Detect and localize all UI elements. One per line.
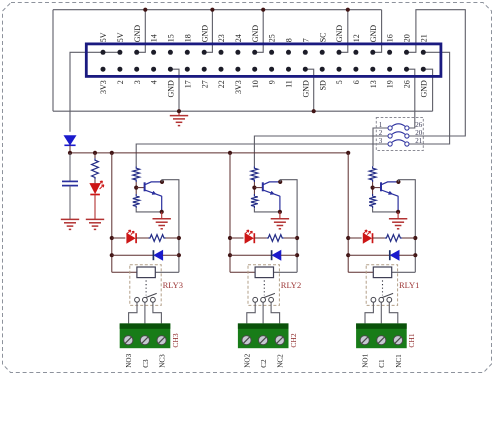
jumper J2 pin 1 <box>388 126 392 130</box>
relay RLY1 coil <box>373 267 391 278</box>
relay RLY2 contact 1 <box>253 297 258 302</box>
wire diode row right channel 1 <box>399 254 415 256</box>
terminal block CH3 <box>120 323 171 348</box>
svg-text:7: 7 <box>301 38 310 42</box>
svg-text:RLY3: RLY3 <box>163 280 183 290</box>
wire collector net channel 1 <box>398 180 415 273</box>
svg-text:NO1: NO1 <box>362 353 370 367</box>
svg-text:26: 26 <box>415 121 423 129</box>
connector J1 bottom pin labels <box>99 80 428 98</box>
wire C1 to terminal <box>380 303 382 324</box>
relay RLY1 contact 2 <box>379 297 384 302</box>
ground at emitter Q3 <box>153 219 171 229</box>
resistor R2c LED series <box>267 235 284 242</box>
wire capacitor to ground <box>69 186 71 220</box>
connector J1 top pin row <box>101 50 426 55</box>
wire to LED D2 <box>230 237 244 239</box>
wire diode row left channel 1 <box>348 254 390 256</box>
wire to board ground <box>178 111 180 115</box>
svg-text:20: 20 <box>403 34 412 42</box>
svg-text:2: 2 <box>116 80 125 84</box>
transistor Q1 NPN <box>381 182 398 212</box>
junction emitter Q3 <box>160 210 164 214</box>
wire NC2 to terminal <box>271 303 280 324</box>
junction LED row left channel 3 <box>110 236 114 240</box>
svg-text:GND: GND <box>200 25 209 43</box>
capacitor C1 <box>62 181 78 185</box>
wire diode row right channel 2 <box>281 254 297 256</box>
svg-text:1: 1 <box>379 121 383 129</box>
wire GND pin39 dropper <box>423 69 432 111</box>
junction VCC rail left <box>68 151 72 155</box>
svg-text:15: 15 <box>167 34 176 42</box>
junction VCC tap channel 3 <box>110 151 114 155</box>
svg-text:CH1: CH1 <box>407 333 416 347</box>
wire GPIO21 net <box>409 52 449 144</box>
svg-text:5: 5 <box>335 80 344 84</box>
svg-text:25: 25 <box>268 34 277 42</box>
junction emitter Q2 <box>278 210 282 214</box>
junction diode row left channel 1 <box>346 253 350 257</box>
svg-text:CH2: CH2 <box>289 333 298 347</box>
wire diode row left channel 3 <box>112 254 154 256</box>
terminal CH1 screw 2 <box>377 336 386 345</box>
ground at emitter Q2 <box>271 219 289 229</box>
junction VCC tap channel 1 <box>346 151 350 155</box>
wire base node channel 1 <box>372 182 374 194</box>
svg-text:11: 11 <box>285 80 294 88</box>
wire jumper row2 to Q2 base resistor <box>254 136 387 166</box>
wire rail to capacitor <box>69 153 71 181</box>
junction GND line pin25 <box>312 109 316 113</box>
svg-text:NO3: NO3 <box>125 353 133 367</box>
resistor R3b pulldown <box>133 194 140 208</box>
svg-text:2: 2 <box>379 129 383 137</box>
wire emitter to ground Q2 <box>279 212 281 219</box>
junction LED row right channel 1 <box>413 236 417 240</box>
wire emitter bottom Q2 <box>254 208 280 212</box>
relay RLY1 linkage <box>382 280 384 295</box>
wire diode row right channel 3 <box>163 254 179 256</box>
svg-text:NO2: NO2 <box>243 353 251 367</box>
wire LED to resistor R3c <box>136 237 148 239</box>
junction GND rail pin14 <box>210 8 214 12</box>
svg-text:12: 12 <box>352 34 361 42</box>
svg-text:21: 21 <box>415 137 423 145</box>
svg-text:9: 9 <box>268 80 277 84</box>
relay RLY3 lever <box>146 293 157 297</box>
svg-text:16: 16 <box>386 34 395 42</box>
ground at emitter Q1 <box>389 219 407 229</box>
wire to LED D1 <box>348 237 362 239</box>
terminal CH1 screw 3 <box>393 336 402 345</box>
diode D1f flyback RLY1 <box>391 251 399 260</box>
wire GND pin34 riser <box>339 10 348 53</box>
wire NC3 to terminal <box>153 303 162 324</box>
wire GND left side <box>52 10 54 112</box>
junction diode row left channel 2 <box>228 253 232 257</box>
wire VCC drop channel 3 <box>111 153 113 272</box>
relay RLY3 coil <box>137 267 155 278</box>
relay RLY1 outline <box>366 265 397 306</box>
relay RLY2 contact 2 <box>261 297 266 302</box>
wire to relay coil left RLY2 <box>230 271 255 273</box>
wire base node to Q1 <box>373 187 381 189</box>
diode D2f flyback RLY2 <box>273 251 281 260</box>
svg-text:4: 4 <box>150 80 159 84</box>
wire GPIO26 net <box>407 69 415 128</box>
wire GND pin6 riser <box>137 10 146 53</box>
jumper J2 pin 21 <box>405 142 409 146</box>
resistor R2b pulldown <box>251 194 258 208</box>
wire resistor to collector net channel 3 <box>166 237 179 239</box>
svg-text:20: 20 <box>415 129 423 137</box>
svg-text:NC2: NC2 <box>277 354 285 368</box>
wire VCC drop channel 1 <box>347 153 349 272</box>
wire C2 to terminal <box>262 303 264 324</box>
wire to relay coil left RLY3 <box>112 271 137 273</box>
junction collector Q1 <box>396 180 400 184</box>
svg-text:19: 19 <box>386 80 395 88</box>
junction diode row right channel 3 <box>177 253 181 257</box>
wire to relay coil left RLY1 <box>348 271 373 273</box>
jumper J2 pin 2 <box>388 134 392 138</box>
junction LED row left channel 2 <box>228 236 232 240</box>
diode D3f flyback RLY3 <box>154 251 162 260</box>
svg-text:23: 23 <box>217 34 226 42</box>
junction diode row right channel 1 <box>413 253 417 257</box>
svg-text:3: 3 <box>133 80 142 84</box>
svg-text:GND: GND <box>419 80 428 98</box>
terminal CH3 screw 3 <box>157 336 166 345</box>
wire NC1 to terminal <box>389 303 398 324</box>
svg-text:RLY2: RLY2 <box>281 280 301 290</box>
relay RLY3 contact 1 <box>135 297 140 302</box>
terminal block CH1 <box>356 323 407 348</box>
junction base node Q3 <box>134 186 138 190</box>
resistor R3a base <box>133 166 140 182</box>
svg-text:21: 21 <box>419 34 428 42</box>
wire NO3 to terminal <box>129 303 137 324</box>
LED D3 indicator <box>127 234 135 243</box>
wire collector net channel 2 <box>280 180 297 273</box>
relay RLY1 contact 3 <box>387 297 392 302</box>
svg-text:22: 22 <box>217 80 226 88</box>
svg-text:SD: SD <box>318 80 327 90</box>
wire 5V from pins 2-4 <box>70 52 120 132</box>
relay RLY3 linkage <box>145 280 147 295</box>
junction GND rail pin6 <box>143 8 147 12</box>
wire resistor to collector net channel 1 <box>402 237 415 239</box>
jumper J2 link arc 2-20 <box>392 132 405 135</box>
resistor R1a base <box>369 166 376 182</box>
wire emitter to ground Q1 <box>397 212 399 219</box>
wire resistor to collector net channel 2 <box>284 237 297 239</box>
svg-text:5V: 5V <box>116 32 125 42</box>
junction GND rail pin20 <box>261 8 265 12</box>
relay RLY2 coil <box>255 267 273 278</box>
resistor R4 power LED <box>92 158 99 179</box>
svg-text:3V3: 3V3 <box>234 80 243 94</box>
wire diode row left channel 2 <box>230 254 272 256</box>
wire resistor to LED <box>94 179 96 183</box>
wire base node channel 3 <box>135 182 137 194</box>
svg-text:27: 27 <box>200 80 209 88</box>
relay RLY1 lever <box>382 293 393 297</box>
junction collector Q3 <box>160 180 164 184</box>
svg-text:C2: C2 <box>260 359 268 368</box>
diode D4 5V input <box>64 136 75 145</box>
wire GND pin9 dropper <box>170 69 179 111</box>
svg-text:GND: GND <box>369 25 378 43</box>
junction power LED branch <box>93 151 97 155</box>
wire GND horizontal line <box>53 110 433 112</box>
wire diode to rail <box>69 145 71 153</box>
junction LED row right channel 3 <box>177 236 181 240</box>
relay RLY2 linkage <box>263 280 265 295</box>
LED D2 indicator <box>245 234 253 243</box>
wire emitter bottom Q1 <box>373 208 399 212</box>
svg-text:GND: GND <box>301 80 310 98</box>
wire emitter bottom Q3 <box>136 208 162 212</box>
junction LED row right channel 2 <box>295 236 299 240</box>
svg-text:C3: C3 <box>142 359 150 368</box>
terminal block CH2 <box>238 323 289 348</box>
svg-text:10: 10 <box>251 80 260 88</box>
svg-text:8: 8 <box>285 38 294 42</box>
relay RLY3 contact 3 <box>151 297 156 302</box>
resistor R1c LED series <box>385 235 402 242</box>
jumper J2 link arc 1-26 <box>392 124 405 127</box>
wire LED to resistor R2c <box>254 237 266 239</box>
wire jumper row1 to Q1 base resistor <box>373 128 388 166</box>
junction emitter Q1 <box>396 210 400 214</box>
junction base node Q1 <box>371 186 375 190</box>
wire GND pin20 riser <box>255 10 264 53</box>
wire GND rail to pin36 <box>373 10 382 53</box>
terminal CH2 screw 1 <box>242 336 251 345</box>
svg-text:18: 18 <box>183 34 192 42</box>
wire to LED D3 <box>112 237 126 239</box>
jumper J2 pin 20 <box>405 134 409 138</box>
wire NO1 to terminal <box>365 303 373 324</box>
connector J1 bottom pin row <box>101 67 426 72</box>
resistor R3c LED series <box>149 235 166 242</box>
wire NO2 to terminal <box>247 303 255 324</box>
junction GND line pin9 <box>177 109 181 113</box>
junction VCC tap channel 2 <box>228 151 232 155</box>
wire C3 to terminal <box>144 303 146 324</box>
svg-text:24: 24 <box>234 34 243 42</box>
svg-text:13: 13 <box>369 80 378 88</box>
resistor R1b pulldown <box>369 194 376 208</box>
relay RLY1 contact 1 <box>371 297 376 302</box>
svg-text:NC1: NC1 <box>395 354 403 368</box>
LED D5 power indicator <box>90 184 100 193</box>
junction LED row left channel 1 <box>346 236 350 240</box>
jumper J2 link arc 3-21 <box>392 140 405 143</box>
svg-text:5V: 5V <box>99 32 108 42</box>
terminal CH3 screw 2 <box>140 336 149 345</box>
svg-text:3: 3 <box>379 137 383 145</box>
ground below connector <box>170 116 188 126</box>
wire GND pin14 riser <box>204 10 212 53</box>
wire base node to Q2 <box>254 187 262 189</box>
junction base node Q2 <box>252 186 256 190</box>
relay RLY2 outline <box>248 265 279 306</box>
svg-text:SC: SC <box>318 33 327 43</box>
wire jumper row3 to Q3 base resistor <box>136 144 388 166</box>
terminal CH2 screw 3 <box>275 336 284 345</box>
terminal CH3 screw 1 <box>124 336 133 345</box>
svg-text:17: 17 <box>183 80 192 88</box>
wire emitter to ground Q3 <box>161 212 163 219</box>
junction diode row right channel 2 <box>295 253 299 257</box>
junction GND rail pin34 <box>346 8 350 12</box>
wire to relay coil right RLY1 <box>392 271 416 273</box>
svg-text:14: 14 <box>150 34 159 42</box>
transistor Q2 NPN <box>263 182 280 212</box>
relay RLY3 outline <box>130 265 161 306</box>
svg-text:NC3: NC3 <box>159 354 167 368</box>
wire VCC relay rail <box>70 152 348 154</box>
svg-text:GND: GND <box>251 25 260 43</box>
terminal CH2 screw 2 <box>259 336 268 345</box>
jumper J2 pin 26 <box>405 126 409 130</box>
junction diode row left channel 3 <box>110 253 114 257</box>
connector J1 40-pin GPIO header <box>86 44 441 77</box>
svg-text:3V3: 3V3 <box>99 80 108 94</box>
relay RLY2 lever <box>264 293 275 297</box>
svg-text:CH3: CH3 <box>171 333 180 347</box>
connector J1 top pin labels <box>99 25 428 43</box>
wire GND pin25 dropper <box>305 69 314 111</box>
svg-text:GND: GND <box>133 25 142 43</box>
svg-text:GND: GND <box>167 80 176 98</box>
relay RLY3 contact 2 <box>143 297 148 302</box>
relay RLY2 contact 3 <box>269 297 274 302</box>
wire collector net channel 3 <box>162 180 179 273</box>
svg-text:26: 26 <box>403 80 412 88</box>
svg-text:6: 6 <box>352 80 361 84</box>
wire GPIO20 net <box>406 10 465 136</box>
jumper J2 pin 3 <box>388 142 392 146</box>
transistor Q3 NPN <box>145 182 162 212</box>
resistor R2a base <box>251 166 258 182</box>
svg-text:RLY1: RLY1 <box>399 280 419 290</box>
wire base node channel 2 <box>253 182 255 194</box>
wire LED to resistor R1c <box>373 237 385 239</box>
wire base node to Q3 <box>136 187 144 189</box>
ground under power LED <box>86 219 104 229</box>
svg-text:GND: GND <box>335 25 344 43</box>
terminal CH1 screw 1 <box>360 336 369 345</box>
wire VCC drop channel 2 <box>229 153 231 272</box>
wire to relay coil right RLY2 <box>274 271 298 273</box>
junction collector Q2 <box>278 180 282 184</box>
LED D1 indicator <box>363 234 371 243</box>
wire rail to resistor R4 <box>94 153 96 158</box>
ground under capacitor <box>61 219 79 229</box>
svg-text:C1: C1 <box>378 359 386 368</box>
jumper block J2 outline <box>376 118 423 151</box>
wire to relay coil right RLY3 <box>155 271 179 273</box>
wire GND top rail <box>53 9 382 11</box>
